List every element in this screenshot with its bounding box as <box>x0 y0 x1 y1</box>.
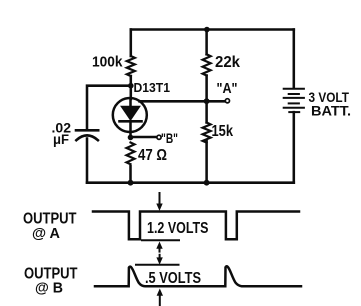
wire 15k bottom lead <box>205 141 208 183</box>
wire 100k bottom to PUT anode <box>130 76 133 99</box>
svg-text:15k: 15k <box>212 123 234 140</box>
dimension line above waveform A <box>159 193 161 204</box>
reference line .5 volts top <box>136 264 179 266</box>
node A terminal circle <box>225 99 229 103</box>
arrowhead up to waveform B baseline <box>157 289 163 296</box>
svg-text:μF: μF <box>53 131 69 147</box>
capacitor C1 bottom curved plate <box>76 135 98 140</box>
waveform section <box>93 193 301 306</box>
transistor Q1 diode triangle <box>121 106 140 120</box>
svg-text:"B": "B" <box>161 130 178 146</box>
arrowhead down to B ref line <box>156 257 162 264</box>
node B terminal circle <box>157 135 161 139</box>
svg-text:OUTPUT: OUTPUT <box>23 210 77 227</box>
svg-text:BATT.: BATT. <box>311 103 351 119</box>
node cathode junction dot <box>128 135 134 141</box>
dimension tail above B ref <box>159 255 161 258</box>
svg-text:.5 VOLTS: .5 VOLTS <box>145 270 201 287</box>
dimension tail between arrows <box>159 248 161 251</box>
capacitor C1 .02uF top plate <box>76 129 98 132</box>
svg-text:1.2 VOLTS: 1.2 VOLTS <box>147 220 209 237</box>
waveform output B trace <box>95 266 301 286</box>
svg-text:100k: 100k <box>92 55 123 71</box>
wire capacitor bottom lead <box>86 139 89 183</box>
dimension tail below B baseline <box>159 295 161 306</box>
wire 22k top lead <box>205 30 208 55</box>
node top rail 22k junction dot <box>204 27 210 33</box>
node 47ohm bottom junction dot <box>128 180 134 186</box>
svg-text:@ B: @ B <box>35 281 63 297</box>
svg-text:D13T1: D13T1 <box>134 81 171 95</box>
transistor Q1 cathode bar <box>120 120 142 123</box>
waveform output A trace <box>93 212 299 240</box>
transistor Q1 cathode lead <box>129 121 132 137</box>
wire 100k top lead <box>130 30 133 57</box>
transistor Q1 D13T1 circle <box>113 98 147 132</box>
arrowhead up to underline <box>156 242 162 249</box>
arrowhead down to waveform A top <box>156 204 162 211</box>
resistor R3 22k zigzag <box>203 54 211 75</box>
node A junction dot <box>204 98 210 104</box>
wire 47ohm bottom lead <box>129 166 132 183</box>
wire PUT gate to divider junction <box>140 100 225 103</box>
svg-text:22k: 22k <box>215 54 240 71</box>
node 15k bottom junction dot <box>204 180 210 186</box>
wire battery bottom lead <box>293 112 296 183</box>
resistor R4 15k zigzag <box>203 123 211 143</box>
battery BT1 plates <box>284 89 304 112</box>
svg-text:47 Ω: 47 Ω <box>138 147 167 164</box>
wire bottom rail <box>87 181 294 184</box>
wire node B lead <box>131 136 156 139</box>
wire anode node to capacitor top <box>87 86 131 130</box>
transistor Q1 anode lead inside circle <box>129 99 132 107</box>
resistor R1 100k zigzag <box>127 56 135 76</box>
dimension underline 1.2 volts <box>142 239 179 241</box>
resistor R2 47ohm zigzag <box>127 143 135 165</box>
svg-text:"A": "A" <box>217 81 238 97</box>
wire 22k bottom to node A <box>205 76 208 123</box>
wire top rail <box>131 28 294 31</box>
svg-text:@ A: @ A <box>32 226 61 242</box>
node anode junction dot <box>128 83 134 89</box>
wire battery top lead <box>293 30 296 89</box>
